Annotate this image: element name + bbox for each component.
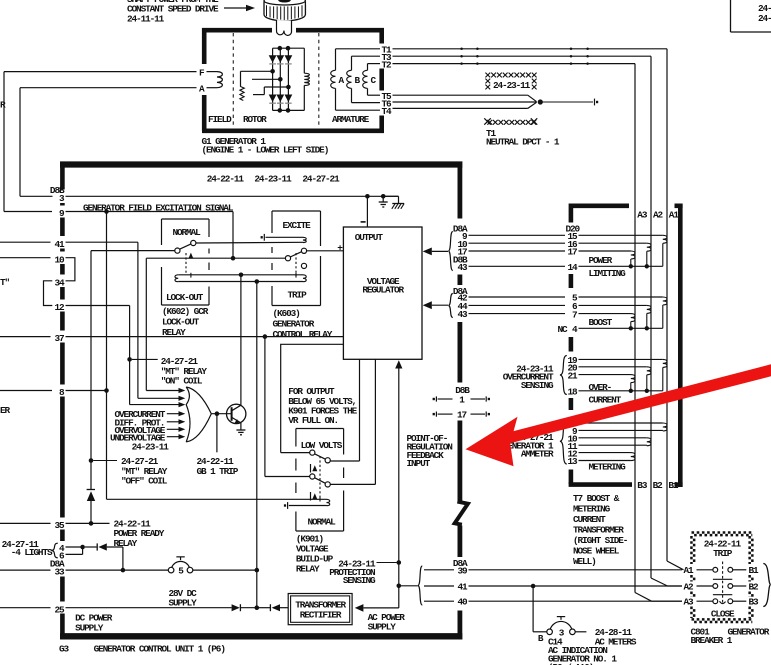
pin 8 line — [66, 390, 107, 392]
svg-text:43: 43 — [457, 262, 468, 273]
pins D8A 42/44/43 — [453, 286, 565, 320]
pin 37 line to VR — [66, 336, 344, 338]
svg-text:43: 43 — [457, 309, 468, 320]
left connector pin labels — [50, 185, 65, 615]
svg-text:(ENGINE 1 - LOWER LEFT SIDE): (ENGINE 1 - LOWER LEFT SIDE) — [202, 145, 329, 156]
K603 trip coil — [296, 273, 306, 282]
external bracket pins 34/12 with MT label — [0, 277, 52, 305]
svg-text:OUTPUT: OUTPUT — [355, 232, 384, 243]
external stub pin 41 — [0, 241, 51, 243]
excitation drop to K603 feed — [232, 212, 234, 259]
external stub pin 35 — [0, 522, 51, 524]
C14 tap node — [531, 584, 536, 589]
svg-text:13: 13 — [567, 456, 578, 467]
pin 3 ground line — [66, 195, 399, 197]
T7 caption — [573, 493, 628, 567]
rotor slip connection (broken wires) — [240, 71, 288, 100]
svg-text:NORMAL: NORMAL — [173, 227, 202, 238]
K602 coil — [175, 273, 303, 282]
note: shaft power from constant speed drive — [127, 0, 219, 25]
C14 labels — [548, 627, 637, 665]
svg-text:B3: B3 — [749, 597, 760, 608]
K901 switch 2 — [310, 474, 331, 487]
node coil bottom to supply — [254, 279, 259, 284]
node pin8 — [104, 388, 109, 393]
B phase labels — [637, 480, 679, 491]
external stub pin 37 — [0, 336, 51, 338]
svg-text:(K602) GCR: (K602) GCR — [162, 306, 209, 317]
wire: field F loop to pin 9 — [4, 72, 197, 212]
breaker linkage — [713, 562, 732, 605]
svg-text:REGULATOR: REGULATOR — [362, 285, 404, 296]
OR gate U1 — [186, 387, 211, 442]
POR feedback label — [407, 433, 454, 469]
svg-text:SENSING: SENSING — [343, 575, 376, 586]
svg-text:34: 34 — [54, 277, 65, 288]
svg-text:BREAKER 1: BREAKER 1 — [691, 635, 733, 646]
svg-text:39: 39 — [457, 565, 468, 576]
K901 actuator marks — [311, 456, 321, 502]
K603 labels — [283, 220, 312, 301]
breaker contacts A1-B1 — [684, 565, 760, 576]
svg-text:B2: B2 — [749, 581, 760, 592]
svg-text:41: 41 — [54, 239, 65, 250]
terminal labels T1 T3 T2 T5 T6 T4 — [382, 45, 393, 117]
svg-text:24-23-11: 24-23-11 — [254, 174, 292, 185]
wire K602 normal contact to K603 excite coil — [196, 241, 303, 244]
K602 arrowhead — [188, 253, 193, 259]
K901 coil — [284, 499, 330, 509]
wire K901 switch1 out to VR — [330, 359, 359, 461]
MT relay OFF coil label — [121, 456, 168, 486]
wire to VR minus — [361, 196, 368, 227]
K603 switch — [285, 248, 306, 268]
neutral lead to DPCT — [543, 99, 599, 106]
branch to K901 switch 2 — [265, 337, 310, 477]
CT coils overcurrent — [629, 359, 667, 393]
POR pins D8B 1 and 17 — [433, 385, 490, 420]
svg-text:12: 12 — [54, 302, 65, 313]
svg-text:41: 41 — [457, 582, 468, 593]
voltage regulator box — [343, 227, 422, 359]
CT coils power limiting — [629, 235, 667, 268]
svg-text:24-23-11: 24-23-11 — [493, 80, 531, 91]
AC power supply arrow — [355, 604, 399, 612]
svg-text:NOSE WHEEL: NOSE WHEEL — [573, 545, 620, 556]
G3 box: bottom edge — [60, 633, 462, 639]
svg-text:METERING: METERING — [589, 461, 627, 472]
K901 voltage build-up relay box — [296, 429, 344, 532]
C14 AC indication breaker — [533, 586, 586, 644]
power ready relay label — [114, 518, 165, 549]
neutral junction — [538, 99, 543, 104]
pins D8A 9/10/17 D8B 43 — [453, 223, 565, 273]
C801 hatched border (checker) — [691, 532, 752, 622]
node protection/39-41-40 — [397, 584, 402, 589]
wire T2 to A3 — [393, 64, 636, 593]
svg-text:POWER: POWER — [589, 255, 613, 266]
svg-text:TRIP: TRIP — [288, 290, 308, 301]
break symbol (bolt) in right bar — [455, 502, 468, 525]
pin 10/34 tie bracket — [66, 258, 75, 281]
svg-text:SUPPLY: SUPPLY — [75, 622, 104, 633]
K602 switch — [91, 240, 196, 253]
svg-text:25: 25 — [54, 604, 65, 615]
shaft with broken end — [276, 20, 291, 35]
svg-text:24-22-11: 24-22-11 — [207, 174, 245, 185]
AC power supply label — [368, 612, 406, 633]
diode CR4 — [257, 604, 288, 611]
node coil top to transistor — [239, 273, 244, 278]
GB1 trip branch — [197, 414, 239, 477]
K603 common feed line — [146, 258, 285, 390]
CT coils boost — [629, 297, 667, 330]
C801 trip/close labels — [704, 538, 742, 619]
svg-text:A1: A1 — [669, 209, 680, 220]
svg-text:T4: T4 — [382, 106, 393, 117]
G3 control unit box: top edge — [60, 161, 462, 167]
red annotation arrow — [466, 364, 771, 466]
G3 box: right connector bar — [457, 162, 462, 219]
DC node lower — [254, 605, 259, 610]
transistor ground — [236, 423, 245, 435]
wire note to K901 switch1 — [281, 452, 310, 454]
svg-text:G3: G3 — [59, 644, 70, 655]
MT relay OFF coil wire — [89, 251, 117, 490]
svg-text:40: 40 — [457, 597, 468, 608]
svg-text:INPUT: INPUT — [407, 458, 431, 469]
svg-text:B1: B1 — [668, 480, 679, 491]
supply wire from coils to DC node — [256, 282, 258, 608]
T7 boost group 5/6/7/NC4 — [557, 293, 662, 335]
svg-text:CLOSE: CLOSE — [711, 608, 735, 619]
svg-text:GENERATOR CONTROL UNIT 1 (P6): GENERATOR CONTROL UNIT 1 (P6) — [94, 644, 226, 655]
svg-text:SUPPLY: SUPPLY — [169, 598, 198, 609]
K603 actuator dashes — [295, 253, 297, 276]
svg-text:17: 17 — [567, 247, 577, 258]
svg-text:WELL): WELL) — [573, 556, 596, 567]
svg-text:GENERATOR: GENERATOR — [273, 319, 315, 330]
OR output node — [211, 411, 231, 416]
G3 caption — [59, 644, 225, 655]
svg-text:14: 14 — [567, 262, 578, 273]
collector wire to relay coils — [240, 275, 242, 405]
K901 switch 1 — [310, 450, 331, 463]
external stub pin 33 — [0, 569, 51, 571]
wire to brace — [399, 585, 418, 587]
svg-text:35: 35 — [54, 520, 65, 531]
T7 power limiting group D20 15/16/17/14 — [566, 223, 663, 279]
DC node upper — [254, 568, 259, 573]
svg-text:A1: A1 — [684, 565, 695, 576]
field winding — [199, 68, 222, 95]
A phase labels — [637, 209, 679, 220]
pin 9 excitation signal line — [66, 203, 234, 214]
wires T5 T6 T4 converge to neutral — [393, 95, 537, 108]
lights label and brace pins 4/6 — [2, 539, 58, 558]
rotor rectifier bridge — [269, 46, 305, 113]
svg-text:CURRENT: CURRENT — [573, 514, 606, 525]
svg-text:VR FULL ON.: VR FULL ON. — [288, 415, 338, 426]
svg-text:NEUTRAL DPCT - 1: NEUTRAL DPCT - 1 — [486, 137, 560, 148]
section labels — [208, 114, 370, 125]
svg-text:"OFF" COIL: "OFF" COIL — [121, 476, 168, 487]
protection sensing riser to VR — [395, 360, 402, 608]
K602 caption — [162, 306, 209, 338]
svg-text:AMMETER: AMMETER — [521, 449, 554, 460]
transformer rectifier box — [288, 594, 352, 625]
dashed separator rotor/armature — [318, 33, 320, 128]
svg-text:NORMAL: NORMAL — [308, 517, 337, 528]
svg-text:T7 BOOST &: T7 BOOST & — [573, 493, 620, 504]
dashed separator field/rotor — [232, 33, 234, 128]
pin 25 line — [66, 607, 232, 609]
node — [231, 256, 236, 261]
pin 33 line — [66, 569, 169, 571]
DC power supply label — [75, 613, 113, 634]
T1 neutral DPCT label — [486, 128, 560, 148]
neutral DPCT hatched box 24-23-11 — [484, 73, 537, 125]
svg-text:TRIP: TRIP — [713, 548, 733, 559]
K901 labels — [301, 440, 343, 528]
node pin37/K901 branch — [263, 334, 268, 339]
svg-text:CONTROL RELAY: CONTROL RELAY — [273, 329, 333, 340]
svg-text:B1: B1 — [749, 565, 760, 576]
breaker contacts A3-B3 — [684, 597, 760, 608]
wire breaker to DC node — [193, 569, 257, 571]
arrow to coupling — [224, 5, 255, 11]
OR gate inputs (upper) — [130, 388, 186, 407]
diode CR1 — [87, 490, 96, 524]
K901 caption — [296, 533, 334, 574]
chassis ground — [383, 196, 404, 209]
VR input arrow group 2 — [423, 294, 453, 318]
G1 caption — [202, 136, 329, 156]
wire pin9 node down to K901 coil — [107, 212, 327, 500]
svg-text:10: 10 — [54, 254, 65, 265]
wire T1 to A1 — [393, 49, 668, 561]
svg-text:BOOST: BOOST — [589, 317, 613, 328]
T7 overcurrent group 19/20/21/18 — [503, 355, 663, 405]
svg-text:33: 33 — [54, 567, 65, 578]
VR labels — [355, 232, 405, 296]
node pin33 — [121, 568, 126, 573]
wire: field A loop to pin 3 — [20, 88, 197, 197]
K602 labels — [166, 227, 204, 303]
pins D8A 39/41/40 — [418, 558, 682, 608]
drive coupling (splined cylinder) — [264, 0, 306, 21]
svg-text:LOCK-OUT: LOCK-OUT — [162, 317, 200, 328]
node: minus junction — [365, 194, 370, 199]
svg-text:24-27-21: 24-27-21 — [302, 174, 340, 185]
svg-text:NC: NC — [557, 324, 568, 335]
svg-text:21: 21 — [567, 370, 578, 381]
CT coils metering — [631, 423, 667, 461]
rotor exciter coil — [304, 48, 309, 110]
svg-text:FIELD: FIELD — [208, 114, 232, 125]
svg-text:24-23-11: 24-23-11 — [132, 441, 170, 452]
G3 box: left connector bar D8B/D8A — [60, 162, 65, 190]
svg-text:A3: A3 — [684, 597, 695, 608]
svg-text:RELAY: RELAY — [296, 563, 320, 574]
svg-text:ER: ER — [0, 405, 11, 416]
svg-text:A2: A2 — [653, 209, 664, 220]
svg-text:METERING: METERING — [573, 503, 611, 514]
chapter refs under top edge — [207, 174, 340, 185]
pins 4/6 lines and diode CR2 — [66, 543, 123, 570]
breaker 28V DC supply — [168, 557, 193, 577]
OR gate labelled inputs — [110, 409, 185, 452]
svg-text:CURRENT: CURRENT — [589, 394, 622, 405]
T7 metering group 8-13 — [503, 419, 663, 473]
svg-text:(RIGHT SIDE-: (RIGHT SIDE- — [573, 535, 628, 546]
svg-text:SENSING: SENSING — [521, 380, 554, 391]
svg-text:B2: B2 — [653, 480, 664, 491]
svg-text:T": T" — [0, 277, 10, 288]
pin 12 line — [66, 306, 130, 405]
svg-text:OVER-: OVER- — [589, 382, 612, 393]
wire K901 switch2 out to VR — [330, 359, 375, 484]
svg-text:37: 37 — [54, 333, 64, 344]
power ready relay node — [66, 521, 110, 526]
pin 41 line — [66, 242, 138, 398]
svg-text:LIMITING: LIMITING — [589, 268, 627, 279]
generator G1 box — [202, 28, 384, 131]
breaker contacts A2-B2 — [684, 581, 760, 592]
svg-text:-4 LIGHTS: -4 LIGHTS — [11, 547, 53, 558]
armature windings A B C — [331, 49, 380, 110]
K603 generator control relay box — [272, 211, 321, 306]
earth ground — [379, 194, 388, 207]
svg-text:SUPPLY: SUPPLY — [368, 622, 397, 633]
svg-text:7: 7 — [572, 309, 577, 320]
K603 excite coil — [261, 234, 307, 243]
svg-text:24-23-: 24-23- — [758, 13, 771, 24]
K603 caption — [273, 308, 333, 340]
svg-text:ARMATURE: ARMATURE — [332, 114, 370, 125]
svg-text:T2: T2 — [382, 59, 393, 70]
svg-text:EXCITE: EXCITE — [283, 220, 312, 231]
svg-text:B3: B3 — [637, 480, 648, 491]
svg-text:TRANSFORMER: TRANSFORMER — [573, 524, 624, 535]
crossing tick dots — [460, 48, 588, 65]
svg-text:RELAY: RELAY — [162, 327, 186, 338]
MT relay ON coil pointer — [127, 357, 157, 362]
external stub pin 25 — [0, 607, 51, 609]
MT relay ON coil label — [161, 356, 208, 386]
note box: K901 function — [281, 344, 358, 452]
svg-text:17: 17 — [457, 410, 467, 421]
K602 lockout relay box — [162, 219, 210, 305]
transistor Q1 — [227, 404, 246, 424]
28V DC supply label — [169, 588, 198, 609]
wire T3 to A2 — [393, 56, 652, 578]
svg-text:(K603): (K603) — [273, 308, 301, 319]
external stub pin 8 — [0, 390, 52, 392]
wire K603 to VR plus — [307, 242, 344, 253]
svg-text:GENERATOR: GENERATOR — [728, 626, 770, 637]
protection sensing label/pointer — [329, 558, 401, 586]
top right cut-off box — [731, 0, 771, 32]
external stub pin 10 — [0, 257, 51, 259]
K602 actuator dashes — [185, 253, 187, 274]
node on excitation line — [104, 209, 109, 214]
T7 box frame — [569, 204, 683, 488]
wires A1/A2/A3 diagonal bends — [635, 561, 684, 601]
svg-text:GB 1 TRIP: GB 1 TRIP — [197, 466, 239, 477]
svg-text:A2: A2 — [684, 581, 695, 592]
svg-text:"ON" COIL: "ON" COIL — [161, 375, 203, 386]
C801 caption — [691, 626, 770, 646]
svg-text:24-11-11: 24-11-11 — [127, 14, 165, 25]
svg-text:LOCK-OUT: LOCK-OUT — [166, 292, 204, 303]
svg-text:ROTOR: ROTOR — [243, 114, 267, 125]
diode CR3 — [232, 604, 257, 611]
output brace — [763, 564, 771, 607]
svg-text:18: 18 — [567, 387, 578, 398]
svg-text:A3: A3 — [637, 209, 648, 220]
svg-text:LOW VOLTS: LOW VOLTS — [301, 440, 343, 451]
VR input arrow group 1 — [423, 232, 453, 271]
svg-text:RECTIFIER: RECTIFIER — [300, 609, 342, 620]
